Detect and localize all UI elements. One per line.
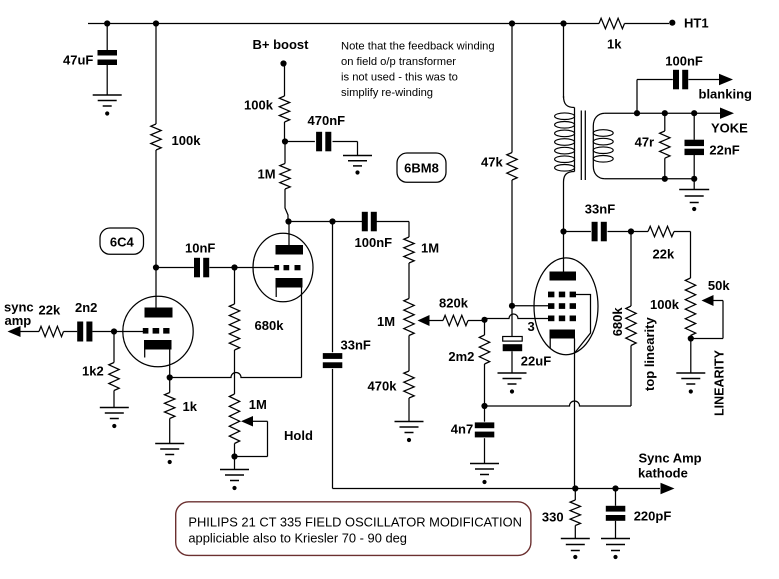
wire screen node to 22uF — [511, 306, 513, 337]
svg-text:6C4: 6C4 — [110, 235, 135, 250]
triode cathode left leg — [275, 288, 277, 298]
wire top HT bus — [88, 23, 599, 25]
wire 680k to Hold pot — [234, 350, 236, 394]
ground below 470nF — [343, 155, 372, 157]
node pot bottom junction — [688, 335, 694, 341]
resistor 1k (HT feed) — [599, 18, 625, 28]
resistor 1k (6C4 cathode) — [165, 393, 175, 419]
ground below Hold pot — [220, 469, 249, 471]
wire 100k to 470nF node — [284, 122, 286, 142]
6C4 anode plate — [145, 308, 173, 318]
svg-text:47k: 47k — [481, 155, 503, 170]
wire 1M to pot — [408, 263, 410, 299]
wire 2n2 to grid junction — [92, 331, 114, 333]
node B+ boost terminal — [280, 60, 286, 66]
resistor 2m2 — [479, 335, 489, 364]
wiper arrow of 100k pot — [702, 295, 714, 306]
wire 100nF to corner — [376, 221, 409, 223]
wire anode junction to 33nF — [564, 231, 591, 233]
wire 1k2 to ground — [113, 391, 115, 408]
svg-text:1M: 1M — [249, 397, 267, 412]
wire to 100nF blanking — [637, 79, 673, 81]
wire top bus to 100k — [155, 24, 157, 125]
wire 1k to HT1 — [625, 23, 670, 25]
wire grid node into 6BM8 triode grid — [235, 267, 275, 269]
wire junction to 1M — [284, 142, 286, 164]
svg-text:on field o/p transformer: on field o/p transformer — [341, 56, 456, 68]
label 6C4 box — [100, 228, 144, 254]
6C4 grid (dashed) — [143, 328, 149, 334]
wire screen node to pentode g2 — [512, 305, 548, 307]
svg-text:330: 330 — [542, 510, 564, 525]
svg-text:10nF: 10nF — [185, 240, 215, 255]
svg-text:820k: 820k — [439, 296, 469, 311]
wire top bus to 47k — [511, 24, 513, 153]
wire wiper to 820k — [429, 320, 443, 322]
wire 100k to anode node — [155, 150, 157, 268]
svg-text:470nF: 470nF — [308, 113, 346, 128]
wire 1M to anode bus — [285, 189, 288, 222]
wire secondary top to YOKE — [605, 112, 721, 114]
capacitor 10nF — [194, 258, 200, 278]
wire 47r to bottom — [664, 158, 666, 179]
svg-text:100nF: 100nF — [665, 54, 703, 69]
svg-text:is not used - this was to: is not used - this was to — [341, 72, 458, 84]
svg-text:100nF: 100nF — [355, 235, 393, 250]
transformer T1 primary winding — [564, 96, 575, 108]
node 22nF bottom junction — [691, 176, 697, 182]
wire 330 to ground — [574, 526, 576, 539]
resistor 100k (6C4 anode load) — [151, 124, 161, 150]
transformer core — [580, 111, 582, 181]
wire anode bus to 33nF — [332, 222, 334, 353]
wire junction to 470nF — [285, 141, 315, 143]
wire Hold wiper to bottom — [253, 420, 268, 422]
wire up to 680k — [630, 346, 632, 407]
node Hold bottom junction — [231, 453, 237, 459]
svg-text:4n7: 4n7 — [451, 422, 473, 437]
wire top bus to primary — [563, 24, 565, 99]
wire Hold pot to ground node — [234, 444, 236, 470]
resistor 1M (upper) — [404, 237, 414, 263]
capacitor 22nF (yoke) — [685, 140, 705, 146]
pentode grid g2 (dashed) — [548, 303, 554, 309]
6C4 cathode — [144, 340, 172, 350]
pentode grid g1 (dashed) — [548, 316, 554, 322]
node junction top-transformer — [560, 20, 566, 26]
wire pot to 470k — [408, 336, 410, 372]
capacitor 22uF (electrolytic) — [503, 337, 523, 342]
node pentode anode junction — [560, 228, 566, 234]
wire bottom rail to ground — [693, 179, 695, 190]
pentode grid g3 (dashed) — [548, 292, 554, 298]
capacitor 33nF (to 22k) — [592, 222, 598, 242]
potentiometer 1M Hold — [229, 394, 239, 444]
resistor 820k — [443, 315, 468, 325]
wire corner down to 1M — [408, 222, 410, 238]
label 6BM8 box — [397, 153, 446, 182]
tube V3 6BM8 pentode envelope — [534, 258, 598, 355]
triode anode plate — [276, 245, 304, 255]
svg-text:1k: 1k — [607, 37, 622, 52]
svg-text:3: 3 — [528, 319, 535, 334]
ground below 47uF — [93, 94, 122, 96]
resistor 330 — [570, 500, 580, 526]
wiper arrow of Hold pot — [241, 416, 253, 427]
wire 33nF to 22k node — [608, 231, 649, 233]
capacitor 33nF (feedback) — [323, 353, 343, 359]
wire pot bottom to ground — [690, 336, 692, 374]
wire 22k to 2n2 — [64, 331, 78, 333]
node bus-220pF junction — [612, 485, 618, 491]
wire 470nF to ground — [333, 141, 358, 143]
resistor 47r (damping) — [660, 131, 670, 158]
node screen junction — [509, 303, 515, 309]
resistor 1k2 — [109, 363, 119, 391]
node junction top-100k — [153, 20, 159, 26]
svg-text:22uF: 22uF — [521, 354, 551, 369]
wire cathode junction to 1k — [169, 378, 171, 393]
wire grid junction into 6C4 grid — [114, 331, 144, 333]
svg-text:top linearity: top linearity — [642, 317, 657, 391]
wire 2m2 to 4n7 node — [484, 364, 486, 406]
svg-text:33nF: 33nF — [341, 338, 371, 353]
resistor 680k (top linearity) — [626, 306, 636, 346]
wire 33nF down to bottom bus — [332, 369, 334, 489]
node yoke-47r junction — [662, 110, 668, 116]
wire triode anode bus — [287, 221, 362, 223]
wire junction to 47r — [664, 113, 666, 131]
wire 47k to screen node — [511, 180, 513, 306]
pentode cathode left leg — [549, 339, 551, 349]
resistor 680k (grid leak) — [229, 304, 239, 350]
pentode cathode — [550, 330, 576, 339]
svg-text:2n2: 2n2 — [75, 300, 97, 315]
svg-text:YOKE: YOKE — [711, 120, 748, 135]
wire up to triode cathode — [301, 288, 303, 378]
title box — [176, 502, 531, 556]
wire 22k to pot corner — [674, 231, 691, 233]
capacitor 220pF — [606, 506, 626, 512]
tube V2 6BM8 triode envelope — [253, 233, 313, 302]
node anode-33nF junction — [329, 218, 335, 224]
svg-text:simplify re-winding: simplify re-winding — [341, 87, 433, 99]
node anode-1M junction — [285, 218, 291, 224]
pentode g3 to cathode link — [575, 295, 591, 353]
wire 6C4 cathode to triode cathode (hop over 680k) — [170, 373, 302, 378]
svg-text:22k: 22k — [653, 247, 675, 262]
resistor 100k (B+ boost) — [279, 96, 289, 122]
svg-text:1k2: 1k2 — [82, 364, 104, 379]
svg-text:470k: 470k — [368, 379, 398, 394]
wire 22uF to ground — [511, 351, 513, 373]
capacitor 2n2 — [77, 322, 83, 342]
svg-text:6BM8: 6BM8 — [404, 161, 439, 176]
svg-text:B+ boost: B+ boost — [253, 37, 310, 52]
node 100k-1M junction — [282, 138, 288, 144]
svg-text:kathode: kathode — [638, 466, 688, 481]
capacitor 100nF (blanking) — [673, 70, 679, 90]
node 6C4 anode junction — [153, 264, 159, 270]
arrow sync amp kathode (right) — [661, 483, 675, 494]
node 33nF-22k-680k junction — [628, 228, 634, 234]
pentode anode plate — [550, 272, 577, 281]
svg-text:47r: 47r — [635, 135, 655, 150]
node 820k-2m2 junction — [481, 317, 487, 323]
svg-text:LINEARITY: LINEARITY — [713, 349, 727, 416]
svg-text:680k: 680k — [610, 307, 625, 337]
wire arrow to 22k — [21, 331, 40, 333]
ground below 330 — [561, 538, 590, 540]
wire junction up to blanking — [636, 80, 638, 114]
svg-text:1M: 1M — [377, 314, 395, 329]
ground below 1k — [155, 443, 184, 445]
resistor 470k — [404, 371, 414, 398]
wire secondary bottom rail — [605, 178, 694, 180]
wire 47uF to ground — [106, 65, 108, 95]
svg-text:100k: 100k — [172, 133, 202, 148]
6C4 cathode legs — [144, 350, 146, 358]
svg-text:47uF: 47uF — [63, 53, 93, 68]
wire 10nF to grid node — [209, 267, 234, 269]
wire primary bottom to anode junction — [563, 182, 565, 232]
wire junction to 22nF — [693, 113, 695, 140]
svg-text:Hold: Hold — [284, 428, 313, 443]
wire 1k to ground — [169, 419, 171, 444]
svg-text:50k: 50k — [708, 278, 730, 293]
wire 470k to ground — [408, 398, 410, 422]
wire 4n7 node to 680k bottom (hop over cathode) — [485, 401, 632, 406]
wire 22nF to bottom — [693, 155, 695, 179]
node 47r bottom junction — [662, 176, 668, 182]
pentode anode wire — [563, 232, 565, 272]
wire 820k to junction — [468, 320, 485, 322]
node junction top-47uF — [104, 20, 110, 26]
potentiometer 1M (frequency) — [404, 299, 414, 336]
svg-text:1M: 1M — [421, 240, 439, 255]
tube V1 6C4 envelope — [123, 296, 193, 366]
svg-text:blanking: blanking — [699, 87, 753, 102]
wire bottom bus (sync amp kathode) — [333, 488, 661, 490]
resistor 47k — [507, 153, 517, 181]
node 2m2-4n7 junction — [481, 403, 487, 409]
wire B+ to 100k — [284, 64, 286, 97]
arrow YOKE (right) — [720, 108, 734, 119]
svg-text:amp: amp — [5, 313, 32, 328]
triode cathode — [276, 278, 303, 288]
svg-text:HT1: HT1 — [684, 16, 709, 31]
svg-text:appliciable also to Kriesler 7: appliciable also to Kriesler 70 - 90 deg — [188, 531, 407, 546]
wire 220pF to ground — [615, 521, 617, 539]
ground below 4n7 — [470, 463, 499, 465]
wire junction to 2m2 — [484, 320, 486, 335]
capacitor 100nF (coupling to 1M chain) — [362, 212, 368, 232]
node 6C4 cathode junction — [167, 374, 173, 380]
svg-text:Note that the feedback winding: Note that the feedback winding — [341, 41, 495, 53]
wire 680k to 33nF node — [630, 232, 632, 307]
node 6C4 grid junction — [111, 328, 117, 334]
ground below 22uF — [498, 372, 527, 374]
ground below yoke rail — [679, 189, 709, 191]
arrow sync amp output (left) — [8, 326, 21, 337]
node triode grid junction — [231, 264, 237, 270]
svg-text:1M: 1M — [258, 167, 276, 182]
wire grid node to 680k — [234, 268, 236, 305]
resistor 1M (B+ boost) — [280, 164, 290, 190]
wiper arrow of 1M pot — [418, 315, 430, 326]
wire junction to 220pF — [615, 489, 617, 506]
wire 100nF to blanking arrow — [688, 79, 719, 81]
svg-text:2m2: 2m2 — [448, 349, 474, 364]
svg-text:Sync Amp: Sync Amp — [639, 451, 702, 466]
svg-text:680k: 680k — [255, 318, 285, 333]
wire pentode cathode down to bus — [574, 339, 576, 489]
node HT1 terminal — [669, 20, 675, 26]
ground below 100k pot — [676, 372, 705, 374]
ground below 220pF — [601, 538, 630, 540]
svg-text:33nF: 33nF — [585, 202, 615, 217]
capacitor 470nF — [316, 132, 322, 152]
node yoke-22nF junction — [691, 110, 697, 116]
svg-text:1k: 1k — [183, 399, 198, 414]
svg-text:220pF: 220pF — [634, 509, 672, 524]
node yoke-blanking junction — [634, 110, 640, 116]
capacitor 47uF — [98, 50, 118, 56]
wire wiper to pot bottom — [713, 300, 723, 302]
svg-text:100k: 100k — [244, 98, 274, 113]
svg-text:PHILIPS 21 CT 335 FIELD OSCILL: PHILIPS 21 CT 335 FIELD OSCILLATOR MODIF… — [188, 515, 522, 530]
ground below 470k — [395, 421, 424, 423]
node junction top-47k — [509, 20, 515, 26]
wire anode node down to 6C4 plate — [155, 268, 157, 309]
wire junction to 330 — [574, 489, 576, 501]
capacitor 4n7 — [475, 422, 495, 428]
svg-text:22nF: 22nF — [709, 143, 739, 158]
wire anode node to 10nF — [156, 267, 194, 269]
wire 4n7 to ground — [484, 438, 486, 463]
node bus-330 junction — [572, 485, 578, 491]
triode grid (dashed) — [274, 265, 279, 270]
transformer T1 secondary winding — [593, 113, 605, 126]
wire top bus to 47uF — [106, 24, 108, 51]
wire junction to pentode grid1 (hop over 47k line) — [485, 314, 549, 319]
ground below 1k2 — [100, 407, 129, 409]
wire junction to 4n7 — [484, 406, 486, 422]
resistor 22k (sync) — [39, 326, 64, 336]
triode anode wire — [288, 222, 290, 246]
svg-text:100k: 100k — [650, 297, 680, 312]
potentiometer 100k LINEARITY — [685, 278, 695, 336]
resistor 22k (linearity) — [648, 226, 674, 236]
arrow blanking (right) — [719, 74, 733, 85]
svg-text:22k: 22k — [39, 303, 61, 318]
wire grid junction to 1k2 — [113, 332, 115, 363]
